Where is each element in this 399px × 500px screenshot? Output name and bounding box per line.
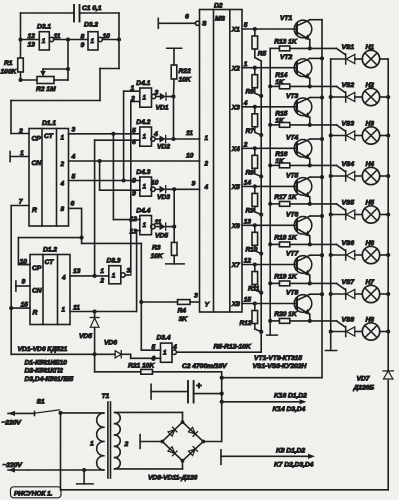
svg-text:15: 15 xyxy=(244,297,252,304)
svg-text:12: 12 xyxy=(28,33,36,40)
svg-text:D4.3: D4.3 xyxy=(136,169,150,176)
svg-text:R19 1K: R19 1K xyxy=(274,273,298,280)
svg-text:D1.2: D1.2 xyxy=(43,247,57,254)
svg-text:C1 0,1: C1 0,1 xyxy=(82,5,102,12)
svg-text:9: 9 xyxy=(22,279,26,286)
svg-text:100K: 100K xyxy=(1,69,18,76)
svg-text:D2-К561КП2: D2-К561КП2 xyxy=(25,368,64,375)
svg-text:D3.3: D3.3 xyxy=(107,258,121,265)
svg-text:D3.1: D3.1 xyxy=(37,24,51,31)
svg-text:VT3: VT3 xyxy=(286,93,298,100)
svg-text:R3: R3 xyxy=(152,245,161,252)
svg-text:13: 13 xyxy=(28,42,36,49)
svg-text:R6: R6 xyxy=(246,89,255,96)
svg-text:9: 9 xyxy=(192,181,196,188)
svg-text:R15: R15 xyxy=(275,110,287,117)
svg-text:D3,D4-К561ЛЕ5: D3,D4-К561ЛЕ5 xyxy=(25,376,74,383)
svg-text:D4.2: D4.2 xyxy=(136,119,150,126)
svg-text:R21 10K: R21 10K xyxy=(128,363,155,370)
svg-text:S: S xyxy=(202,21,207,28)
svg-text:D3.2: D3.2 xyxy=(84,22,98,29)
svg-text:R13 1K: R13 1K xyxy=(274,38,298,45)
svg-text:9: 9 xyxy=(132,191,136,198)
svg-text:2: 2 xyxy=(60,161,65,168)
svg-text:1: 1 xyxy=(112,273,116,280)
svg-text:CP: CP xyxy=(32,136,42,143)
svg-text:VT5: VT5 xyxy=(286,173,298,180)
svg-text:VT1: VT1 xyxy=(280,15,292,22)
svg-text:1: 1 xyxy=(90,441,94,448)
svg-text:C2 4700m/16V: C2 4700m/16V xyxy=(182,363,228,370)
svg-text:2: 2 xyxy=(124,441,129,448)
svg-text:VS7: VS7 xyxy=(342,279,356,286)
svg-text:8: 8 xyxy=(81,34,85,41)
svg-text:1: 1 xyxy=(143,95,147,102)
svg-text:5: 5 xyxy=(72,174,76,181)
svg-text:MS: MS xyxy=(215,16,226,23)
svg-text:4: 4 xyxy=(172,344,177,351)
svg-text:K7 D2,D3,D4: K7 D2,D3,D4 xyxy=(274,462,314,469)
svg-text:VT6: VT6 xyxy=(286,212,298,219)
svg-text:X6: X6 xyxy=(231,223,240,230)
svg-text:5: 5 xyxy=(244,22,248,29)
svg-text:R10: R10 xyxy=(246,246,258,253)
svg-text:4: 4 xyxy=(61,275,66,282)
svg-text:1K: 1K xyxy=(275,158,285,165)
svg-text:D2: D2 xyxy=(214,3,223,10)
svg-text:РИСУНОК 1.: РИСУНОК 1. xyxy=(14,490,53,497)
svg-text:R17 1K: R17 1K xyxy=(274,194,298,201)
svg-text:10: 10 xyxy=(186,153,194,160)
svg-text:2: 2 xyxy=(204,161,209,168)
svg-text:4: 4 xyxy=(153,131,158,138)
svg-text:11: 11 xyxy=(186,130,193,137)
svg-text:2: 2 xyxy=(99,278,104,285)
svg-text:D4.4: D4.4 xyxy=(136,208,150,215)
svg-text:R5-R12-10K: R5-R12-10K xyxy=(214,343,252,350)
svg-text:14: 14 xyxy=(244,180,252,187)
svg-text:VS1-VS8-КУ202Н: VS1-VS8-КУ202Н xyxy=(253,363,308,370)
svg-text:6: 6 xyxy=(185,14,189,21)
svg-text:R11: R11 xyxy=(248,286,260,293)
svg-text:X2: X2 xyxy=(231,65,240,72)
svg-text:R5: R5 xyxy=(258,51,267,58)
svg-text:D3.4: D3.4 xyxy=(157,335,171,342)
svg-text:VS8: VS8 xyxy=(342,317,355,324)
svg-text:1: 1 xyxy=(131,85,135,92)
svg-text:2: 2 xyxy=(130,96,135,103)
svg-text:8: 8 xyxy=(61,206,65,213)
svg-text:X8: X8 xyxy=(231,301,240,308)
svg-text:Д226Б: Д226Б xyxy=(353,385,375,392)
svg-text:X3: X3 xyxy=(231,104,240,111)
svg-text:9: 9 xyxy=(81,42,85,49)
svg-text:2: 2 xyxy=(18,128,23,135)
svg-text:R18 1K: R18 1K xyxy=(274,234,298,241)
svg-text:R14: R14 xyxy=(275,72,287,79)
svg-text:R20 1K: R20 1K xyxy=(274,311,298,318)
svg-text:3: 3 xyxy=(194,293,198,300)
svg-text:D1.1: D1.1 xyxy=(42,120,56,127)
svg-text:4: 4 xyxy=(71,154,76,161)
svg-text:VD5: VD5 xyxy=(155,233,168,240)
svg-text:R: R xyxy=(33,310,38,317)
svg-text:11: 11 xyxy=(54,33,61,40)
svg-text:D1-К561ИЕ10: D1-К561ИЕ10 xyxy=(25,359,68,366)
svg-text:13: 13 xyxy=(244,219,252,226)
svg-text:VD2: VD2 xyxy=(157,144,170,151)
svg-text:R7: R7 xyxy=(246,128,255,135)
svg-text:12: 12 xyxy=(130,216,138,223)
svg-text:R4: R4 xyxy=(178,308,187,315)
svg-text:CN: CN xyxy=(32,288,43,295)
svg-text:3: 3 xyxy=(155,90,159,97)
svg-text:6: 6 xyxy=(132,139,136,146)
svg-text:~220V: ~220V xyxy=(3,462,24,469)
svg-text:VT8: VT8 xyxy=(286,290,298,297)
svg-text:X7: X7 xyxy=(231,262,240,269)
svg-text:10K: 10K xyxy=(179,77,192,84)
svg-text:2: 2 xyxy=(243,142,248,149)
svg-text:~220V: ~220V xyxy=(2,420,23,427)
svg-text:VT2: VT2 xyxy=(280,54,292,61)
svg-text:10: 10 xyxy=(151,180,159,187)
svg-text:13: 13 xyxy=(130,229,138,236)
svg-text:CT: CT xyxy=(44,133,54,140)
svg-text:X5: X5 xyxy=(231,184,240,191)
svg-text:1: 1 xyxy=(62,307,66,314)
svg-text:6: 6 xyxy=(152,356,156,363)
svg-text:VD1-VD6 КД521: VD1-VD6 КД521 xyxy=(18,346,68,353)
svg-text:1: 1 xyxy=(163,350,167,357)
svg-text:12: 12 xyxy=(244,258,252,265)
svg-text:1: 1 xyxy=(205,135,209,142)
svg-text:S1: S1 xyxy=(37,399,45,406)
svg-text:1K: 1K xyxy=(275,117,285,124)
svg-text:4: 4 xyxy=(243,100,248,107)
svg-text:VD6: VD6 xyxy=(104,340,117,347)
svg-text:10K: 10K xyxy=(151,253,164,260)
svg-text:D4.1: D4.1 xyxy=(136,80,150,87)
svg-text:VS4: VS4 xyxy=(342,161,355,168)
svg-text:VS2: VS2 xyxy=(342,82,355,89)
svg-text:4: 4 xyxy=(60,181,65,188)
svg-text:CN: CN xyxy=(32,160,43,167)
svg-text:1: 1 xyxy=(42,38,46,45)
svg-text:CT: CT xyxy=(45,259,55,266)
svg-text:R2 1M: R2 1M xyxy=(36,86,56,93)
svg-text:1: 1 xyxy=(100,268,104,275)
svg-text:VS3: VS3 xyxy=(342,121,355,128)
svg-text:6: 6 xyxy=(71,201,75,208)
svg-text:VD3: VD3 xyxy=(157,194,170,201)
svg-text:1: 1 xyxy=(143,184,147,191)
svg-text:1: 1 xyxy=(244,61,248,68)
svg-text:VT1-VT8-КТ315: VT1-VT8-КТ315 xyxy=(254,355,302,362)
svg-text:R1: R1 xyxy=(4,60,13,67)
svg-text:VS6: VS6 xyxy=(342,240,355,247)
svg-text:11: 11 xyxy=(73,305,80,312)
svg-text:R8: R8 xyxy=(246,169,255,176)
svg-text:+: + xyxy=(196,381,202,392)
svg-text:5: 5 xyxy=(132,128,136,135)
svg-text:VT4: VT4 xyxy=(286,135,298,142)
svg-text:VT7: VT7 xyxy=(286,251,299,258)
svg-text:VS1: VS1 xyxy=(342,44,355,51)
svg-text:CP: CP xyxy=(32,265,42,272)
svg-text:1: 1 xyxy=(91,38,95,45)
svg-text:1: 1 xyxy=(143,134,147,141)
svg-text:10: 10 xyxy=(103,33,111,40)
svg-text:R: R xyxy=(32,207,37,214)
svg-text:VD5: VD5 xyxy=(79,333,92,340)
svg-text:4: 4 xyxy=(204,184,209,191)
svg-text:X4: X4 xyxy=(231,146,240,153)
svg-text:R9: R9 xyxy=(246,207,255,214)
svg-text:X1: X1 xyxy=(231,27,240,34)
svg-text:1: 1 xyxy=(61,135,65,142)
svg-text:VS5: VS5 xyxy=(342,200,355,207)
svg-text:R22: R22 xyxy=(179,68,191,75)
svg-text:K16 D1,D2: K16 D1,D2 xyxy=(274,393,307,400)
svg-text:T1: T1 xyxy=(102,393,110,400)
svg-text:VD1: VD1 xyxy=(156,105,169,112)
svg-text:K14 D3,D4: K14 D3,D4 xyxy=(273,406,306,413)
svg-text:R16: R16 xyxy=(275,151,287,158)
svg-text:3: 3 xyxy=(127,268,131,275)
svg-text:3: 3 xyxy=(72,127,76,134)
svg-text:13: 13 xyxy=(73,268,81,275)
svg-text:K8 D1,D2: K8 D1,D2 xyxy=(276,448,305,455)
svg-text:R12: R12 xyxy=(240,320,252,327)
svg-text:8: 8 xyxy=(132,178,136,185)
svg-text:3K: 3K xyxy=(179,316,189,323)
svg-text:1K: 1K xyxy=(275,79,285,86)
svg-text:1: 1 xyxy=(143,222,147,229)
svg-text:VD8-VD11-Д226: VD8-VD11-Д226 xyxy=(148,475,198,482)
svg-text:VD7: VD7 xyxy=(357,376,371,383)
